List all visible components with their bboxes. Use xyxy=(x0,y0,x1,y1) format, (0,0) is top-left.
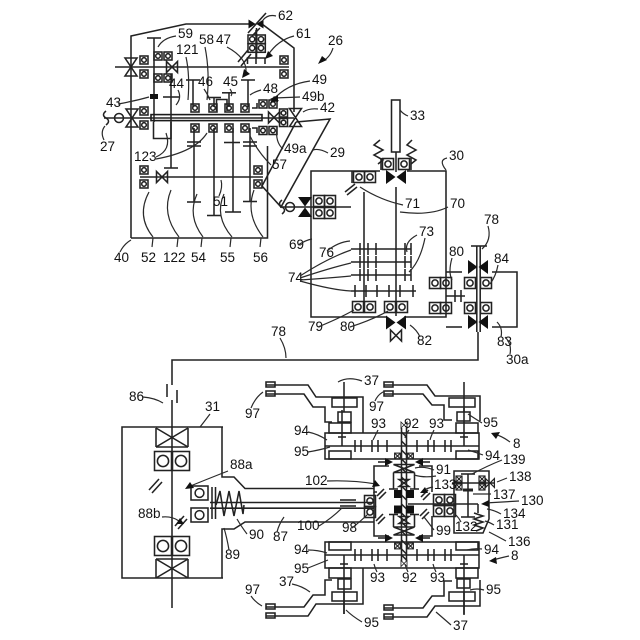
dark blocks bottom xyxy=(394,506,402,514)
svg-text:44: 44 xyxy=(169,76,185,91)
svg-text:92: 92 xyxy=(402,570,417,585)
gear 59 xyxy=(147,38,171,122)
valve 62 (filled bowtie on top edge) xyxy=(249,19,264,28)
svg-text:88b: 88b xyxy=(138,506,161,521)
svg-text:42: 42 xyxy=(320,100,335,115)
unit 130 cross xyxy=(486,479,495,488)
spring right of shaft 33 xyxy=(407,140,416,164)
bracket right 84/83 xyxy=(446,272,517,327)
input shaft of box 30 xyxy=(280,206,351,208)
svg-text:78: 78 xyxy=(271,324,286,339)
svg-text:33: 33 xyxy=(410,108,425,123)
svg-text:121: 121 xyxy=(176,42,199,57)
break mark input 27 xyxy=(104,111,109,125)
shaft body thick xyxy=(151,115,262,121)
bearings at shaft87 left xyxy=(191,486,208,522)
wheel bottom-left xyxy=(266,568,363,618)
clutch diagonal marks right side xyxy=(420,490,430,519)
wheel bottom-right xyxy=(384,579,480,619)
svg-text:55: 55 xyxy=(220,250,235,265)
svg-text:62: 62 xyxy=(278,8,293,23)
svg-text:90: 90 xyxy=(249,527,264,542)
svg-text:31: 31 xyxy=(205,399,220,414)
shaft 33 xyxy=(392,100,401,152)
svg-text:98: 98 xyxy=(342,520,357,535)
leader arcs inside gearbox bottom xyxy=(143,190,263,237)
clutch mark 88a xyxy=(149,479,162,493)
wheel top-right xyxy=(384,382,480,421)
svg-text:131: 131 xyxy=(496,517,519,532)
wire main shaft 51 xyxy=(104,117,294,119)
svg-text:133: 133 xyxy=(434,477,457,492)
axle line bottom housing xyxy=(325,549,479,561)
svg-text:69: 69 xyxy=(289,237,304,252)
wire counter shaft xyxy=(140,176,263,178)
svg-text:94: 94 xyxy=(484,542,500,557)
cross joint counter shaft xyxy=(157,172,168,183)
gear train line 3 xyxy=(351,269,411,281)
unit 130 bearings xyxy=(456,476,462,482)
svg-text:61: 61 xyxy=(296,26,311,41)
gear 123 box xyxy=(154,122,172,139)
svg-text:59: 59 xyxy=(178,26,193,41)
shaft 61 vertical xyxy=(255,30,257,64)
bearings at shaft 33 foot xyxy=(383,159,394,170)
gear train line 4 xyxy=(351,285,416,297)
svg-text:57: 57 xyxy=(272,157,287,172)
bearing pair 59 area left xyxy=(140,56,148,64)
svg-text:52: 52 xyxy=(141,250,156,265)
small cross on shaft bottom xyxy=(399,517,409,524)
svg-text:48: 48 xyxy=(263,81,278,96)
bearings bottom box31 xyxy=(155,537,172,556)
input bearings xyxy=(314,196,325,207)
bearings at shaft87 right xyxy=(365,496,376,507)
bearings top box31 xyxy=(155,452,172,471)
hub walls bottom xyxy=(389,515,419,528)
bearing pair main shaft left xyxy=(140,107,148,115)
svg-text:30a: 30a xyxy=(506,352,529,367)
center vertical shaft hatched xyxy=(402,428,407,561)
hub walls top xyxy=(389,473,419,490)
valve 83 filled xyxy=(468,315,488,329)
svg-text:97: 97 xyxy=(245,406,260,421)
svg-text:91: 91 xyxy=(436,462,451,477)
bearings 121 cluster xyxy=(154,52,162,60)
svg-text:84: 84 xyxy=(494,251,510,266)
bearings right end upper shaft xyxy=(280,56,288,64)
clutch marks at 98 xyxy=(376,489,386,524)
axle line top housing xyxy=(325,440,479,452)
svg-text:89: 89 xyxy=(225,547,240,562)
valve 42 on boundary xyxy=(290,109,302,127)
bearings on shaft above bottom housing xyxy=(395,543,401,549)
spring 131 xyxy=(474,513,483,531)
svg-text:99: 99 xyxy=(436,523,451,538)
svg-text:27: 27 xyxy=(100,139,115,154)
bearings counter shaft right xyxy=(254,166,262,174)
gear 44 xyxy=(163,97,179,111)
svg-text:37: 37 xyxy=(279,574,294,589)
bottom clutch in diff xyxy=(394,527,415,535)
input coupling circle xyxy=(115,114,124,123)
svg-text:51: 51 xyxy=(213,194,228,209)
box 30 outline xyxy=(311,171,446,317)
bearings bottom of box 30 xyxy=(353,302,364,313)
bearings counter shaft left xyxy=(140,166,148,174)
valve on upper shaft left xyxy=(125,58,137,76)
bearings on shaft bottom row xyxy=(191,124,199,132)
svg-text:97: 97 xyxy=(245,582,260,597)
axle line to unit 130 xyxy=(408,503,478,505)
vertical gear shafts to counter shaft xyxy=(164,111,178,168)
link line y296 xyxy=(446,290,465,302)
belt drive 29 parallelogram xyxy=(262,119,330,207)
svg-text:43: 43 xyxy=(106,95,121,110)
svg-text:95: 95 xyxy=(486,582,501,597)
svg-text:30: 30 xyxy=(449,148,464,163)
svg-text:70: 70 xyxy=(450,196,465,211)
svg-text:29: 29 xyxy=(330,145,345,160)
svg-text:94: 94 xyxy=(485,448,501,463)
valve 82 filled xyxy=(386,316,406,330)
svg-text:45: 45 xyxy=(223,74,238,89)
svg-text:58: 58 xyxy=(199,32,214,47)
svg-text:93: 93 xyxy=(371,416,386,431)
gear train line 2 xyxy=(351,256,411,268)
gear train line 1 xyxy=(351,243,411,255)
spring 90 xyxy=(216,491,244,516)
dark blocks top xyxy=(394,490,402,498)
wheel shafts into top housing xyxy=(338,408,468,446)
svg-text:49a: 49a xyxy=(284,141,307,156)
svg-text:26: 26 xyxy=(328,33,343,48)
svg-text:37: 37 xyxy=(364,373,379,388)
svg-text:37: 37 xyxy=(453,618,468,633)
svg-text:139: 139 xyxy=(503,452,526,467)
bottom axle housing 8 xyxy=(325,542,479,568)
shaft 87 double line xyxy=(210,503,374,509)
input clutch valve (filled) xyxy=(298,197,312,217)
svg-text:49: 49 xyxy=(312,72,327,87)
wire upper shaft xyxy=(115,66,289,68)
cross joint on upper shaft xyxy=(167,62,178,73)
housing corner blocks top xyxy=(329,423,478,459)
svg-text:95: 95 xyxy=(364,615,379,630)
valve 82 cross below xyxy=(391,330,402,341)
clutch 71 valve (filled bowtie) xyxy=(386,170,406,184)
svg-text:132: 132 xyxy=(455,519,478,534)
bearings on shaft top row xyxy=(191,104,199,112)
svg-text:95: 95 xyxy=(483,415,498,430)
svg-text:137: 137 xyxy=(493,487,516,502)
clutch marks 71 xyxy=(345,184,357,195)
axle into unit 130 xyxy=(477,504,479,513)
gear train shafts vertical xyxy=(364,187,396,316)
svg-text:100: 100 xyxy=(297,518,320,533)
svg-text:86: 86 xyxy=(129,389,144,404)
svg-text:92: 92 xyxy=(404,416,419,431)
shaft 31 vertical xyxy=(171,427,173,608)
svg-text:40: 40 xyxy=(114,250,129,265)
bearing pair top-left in box 30 xyxy=(354,172,365,183)
svg-text:87: 87 xyxy=(273,529,288,544)
svg-text:97: 97 xyxy=(369,399,384,414)
svg-text:71: 71 xyxy=(405,196,420,211)
takeoff shaft right xyxy=(471,246,487,332)
gears above shaft xyxy=(186,80,255,111)
svg-text:80: 80 xyxy=(449,244,464,259)
cross joint 42 xyxy=(269,112,280,123)
svg-text:73: 73 xyxy=(419,224,434,239)
wire long connector xyxy=(172,332,478,427)
shaft end X bottom xyxy=(401,560,407,566)
boundary 26 xyxy=(131,24,294,238)
spring left of shaft 33 xyxy=(374,140,383,164)
wheel top-left xyxy=(266,382,363,433)
svg-text:95: 95 xyxy=(294,561,309,576)
bevel X top in box 31 xyxy=(156,428,188,447)
svg-text:122: 122 xyxy=(163,250,186,265)
svg-text:46: 46 xyxy=(198,74,213,89)
clutch 61 marks xyxy=(238,28,260,66)
small cross on shaft xyxy=(399,480,409,487)
svg-text:102: 102 xyxy=(305,473,328,488)
bearings takeoff lower xyxy=(465,303,476,314)
bearings takeoff upper xyxy=(465,278,476,289)
svg-text:56: 56 xyxy=(253,250,268,265)
bevel X bottom in box 31 xyxy=(156,559,188,578)
box 31 outline xyxy=(122,427,374,578)
svg-text:88a: 88a xyxy=(230,457,253,472)
top axle housing 8 xyxy=(325,433,479,459)
right bearing cluster 132/133 xyxy=(434,495,445,506)
housing corner blocks bottom xyxy=(329,542,478,578)
svg-text:123: 123 xyxy=(134,149,157,164)
coupling 100 marks xyxy=(340,500,356,506)
svg-text:47: 47 xyxy=(216,32,231,47)
svg-text:8: 8 xyxy=(513,436,521,451)
wheel shafts from bottom housing xyxy=(340,555,468,614)
svg-text:95: 95 xyxy=(294,444,309,459)
svg-text:93: 93 xyxy=(429,416,444,431)
bearings 49b cluster right xyxy=(259,100,267,108)
shaft end X top xyxy=(401,422,407,428)
unit 130 gear xyxy=(461,474,475,517)
svg-text:93: 93 xyxy=(430,570,445,585)
center diff unit box xyxy=(374,466,432,536)
bearings on shaft below top housing xyxy=(395,453,401,459)
svg-text:136: 136 xyxy=(508,534,531,549)
input break xyxy=(280,200,285,214)
svg-text:94: 94 xyxy=(294,423,310,438)
unit 130 box xyxy=(454,471,489,533)
break 86 marks xyxy=(167,384,177,403)
svg-text:93: 93 xyxy=(370,570,385,585)
bearing cluster 61 xyxy=(248,35,265,52)
clutch mark 88b xyxy=(175,516,187,529)
svg-text:138: 138 xyxy=(509,469,532,484)
valve 84 filled xyxy=(468,260,488,274)
svg-text:8: 8 xyxy=(511,548,519,563)
valve on main shaft xyxy=(126,109,138,127)
svg-text:78: 78 xyxy=(484,212,499,227)
top clutch in diff: arrows + flat cross xyxy=(378,461,430,463)
svg-text:54: 54 xyxy=(191,250,207,265)
block 43 xyxy=(150,94,158,99)
gears below shaft xyxy=(187,128,257,216)
svg-text:94: 94 xyxy=(294,542,310,557)
unit 130 line xyxy=(452,482,495,484)
